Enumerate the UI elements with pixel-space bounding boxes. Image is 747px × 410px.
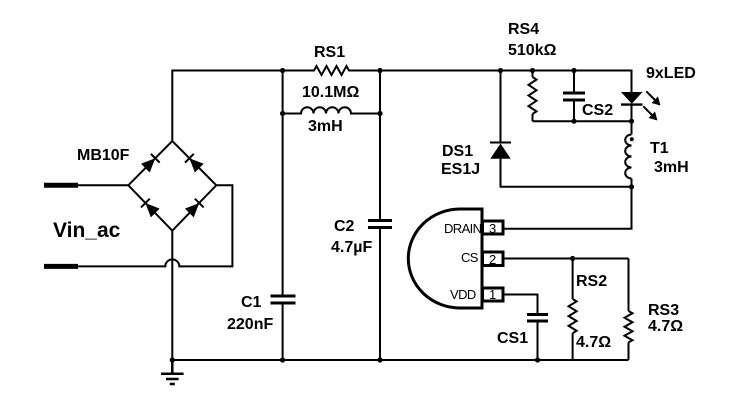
bridge diode top-left [141, 154, 160, 173]
resistor RS3 [625, 311, 633, 342]
wire CS2 branch lower [573, 101, 575, 121]
transformer T1 phase dot [630, 137, 634, 141]
svg-text:510kΩ: 510kΩ [508, 42, 557, 59]
wire CS1 lower [537, 322, 539, 360]
wire inductor branch left vertical [282, 71, 284, 114]
svg-text:Vin_ac: Vin_ac [53, 219, 121, 242]
bridge diode bottom-right [185, 199, 204, 218]
resistor RS1 [310, 66, 353, 75]
LED emission arrow 2 [640, 103, 661, 124]
ground [161, 360, 184, 384]
wire RS3 upper [628, 259, 630, 312]
svg-text:ES1J: ES1J [441, 161, 480, 178]
node CS / RS2 [570, 256, 575, 261]
wire DS1 branch lower [501, 159, 632, 187]
wire C2 branch lower [379, 229, 381, 361]
wire RS4 branch lower [532, 114, 534, 121]
svg-text:RS4: RS4 [508, 21, 539, 38]
capacitor C2 [368, 221, 392, 228]
wire RS4 branch upper [532, 71, 534, 78]
svg-text:4.7Ω: 4.7Ω [648, 318, 683, 335]
svg-text:RS1: RS1 [314, 44, 345, 61]
pin 3 box [483, 221, 504, 234]
resistor RS4 [529, 77, 537, 114]
node RL bottom right [377, 111, 382, 116]
capacitor CS2 [563, 93, 585, 100]
bridge diode top-right [185, 154, 204, 173]
wire top bus right segment [353, 71, 632, 93]
svg-text:9xLED: 9xLED [646, 65, 696, 82]
wire AC input top [76, 184, 128, 186]
wire T1 top [631, 121, 633, 135]
pin 1 box [483, 288, 504, 301]
wire VDD pin [504, 295, 538, 314]
node C2 bottom [377, 357, 382, 362]
wire drain connection [504, 187, 632, 229]
wire DS1 branch upper [500, 71, 502, 143]
wire RS2 lower [572, 333, 574, 360]
inductor T1 winding [625, 135, 631, 179]
svg-text:MB10F: MB10F [77, 147, 130, 164]
wire T1 bottom [631, 180, 633, 187]
wire C2 branch upper [379, 114, 381, 220]
bridge MB10F outline [128, 141, 216, 231]
svg-text:4.7µF: 4.7µF [331, 239, 372, 256]
svg-text:CS: CS [461, 250, 479, 265]
wire bridge bottom to ground bus [171, 231, 173, 360]
node top bus / RL left [280, 68, 285, 73]
svg-text:3: 3 [489, 221, 496, 236]
node ground junction [170, 357, 175, 362]
svg-text:2: 2 [489, 252, 496, 267]
svg-text:CS1: CS1 [497, 330, 528, 347]
svg-text:DS1: DS1 [442, 143, 473, 160]
svg-text:3mH: 3mH [654, 159, 689, 176]
wire AC input bottom with hop [76, 185, 232, 266]
node top bus / DS1 [498, 68, 503, 73]
svg-text:4.7Ω: 4.7Ω [576, 334, 611, 351]
diode DS1 [490, 143, 511, 159]
svg-text:C1: C1 [241, 294, 262, 311]
wire top bus left segment [172, 71, 310, 142]
svg-text:RS3: RS3 [648, 302, 679, 319]
inductor L1 3mH [283, 107, 380, 113]
bridge diode bottom-left [141, 199, 160, 218]
wire RS3 lower [628, 342, 630, 360]
wire C1 branch upper [282, 114, 284, 296]
node top bus / RL right [377, 68, 382, 73]
svg-text:T1: T1 [650, 140, 669, 157]
svg-text:CS2: CS2 [582, 102, 613, 119]
node RL bottom left [280, 111, 285, 116]
terminal AC top [44, 183, 78, 188]
capacitor C1 [271, 296, 296, 303]
wire RS2 upper [572, 259, 574, 300]
svg-text:RS2: RS2 [576, 273, 607, 290]
svg-text:3mH: 3mH [308, 118, 343, 135]
svg-text:VDD: VDD [450, 287, 476, 302]
node top bus / RS4 [530, 68, 535, 73]
node LED cathode [629, 119, 634, 124]
wire inductor branch right vertical [379, 71, 381, 114]
node C1 bottom [280, 357, 285, 362]
resistor RS2 [569, 299, 577, 333]
svg-text:C2: C2 [334, 218, 355, 235]
terminal AC bottom [44, 264, 78, 269]
node top bus / CS2 [571, 68, 576, 73]
wire CS pin to resistors [504, 258, 629, 260]
wire bottom bus [172, 359, 628, 361]
pin 2 box [483, 252, 504, 266]
LED emission arrow 1 [643, 88, 664, 109]
node CS2 bottom [571, 119, 576, 124]
svg-text:220nF: 220nF [227, 316, 273, 333]
svg-text:10.1MΩ: 10.1MΩ [302, 84, 359, 101]
LED D1 [621, 92, 643, 121]
node T1 / DS1 [629, 184, 634, 189]
wire T1 winding bottom stub [631, 179, 633, 187]
capacitor CS1 [527, 315, 548, 322]
node CS1 bottom [535, 357, 540, 362]
svg-text:1: 1 [489, 287, 496, 302]
svg-text:DRAIN: DRAIN [444, 221, 482, 236]
wire C1 branch lower [282, 304, 284, 360]
wire CS2 branch upper [573, 71, 575, 93]
wire snubber bottom connector [533, 120, 632, 122]
op-amp U1 body [408, 209, 482, 308]
